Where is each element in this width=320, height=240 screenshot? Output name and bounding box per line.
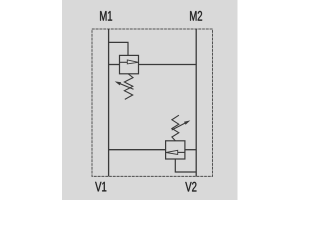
RV1 spring	[124, 74, 133, 100]
relief valve RV1 body	[120, 55, 139, 73]
RV2 pilot line	[175, 159, 196, 172]
wire RV2 outlet	[109, 149, 166, 151]
RV1 flow arrow	[120, 60, 139, 64]
port label M1	[100, 11, 112, 20]
port label V2	[185, 182, 196, 192]
wire RV1 outlet	[139, 64, 197, 66]
wire RV2 inlet	[185, 149, 196, 151]
gray drawing panel	[62, 0, 238, 200]
port label V1	[95, 182, 106, 191]
enclosure (dashed subplate boundary)	[92, 29, 213, 176]
RV1 adjustment arrow	[115, 81, 134, 89]
RV2 adjustment arrow	[172, 120, 191, 130]
RV2 spring	[172, 115, 179, 141]
wire M1-V1 line	[108, 29, 110, 176]
port label M2	[190, 11, 202, 21]
RV2 flow arrow	[166, 150, 185, 154]
wire RV1 inlet	[109, 64, 120, 66]
RV1 pilot line	[109, 42, 128, 55]
wire M2-V2 line	[195, 29, 197, 176]
relief valve RV2 body	[166, 141, 185, 159]
